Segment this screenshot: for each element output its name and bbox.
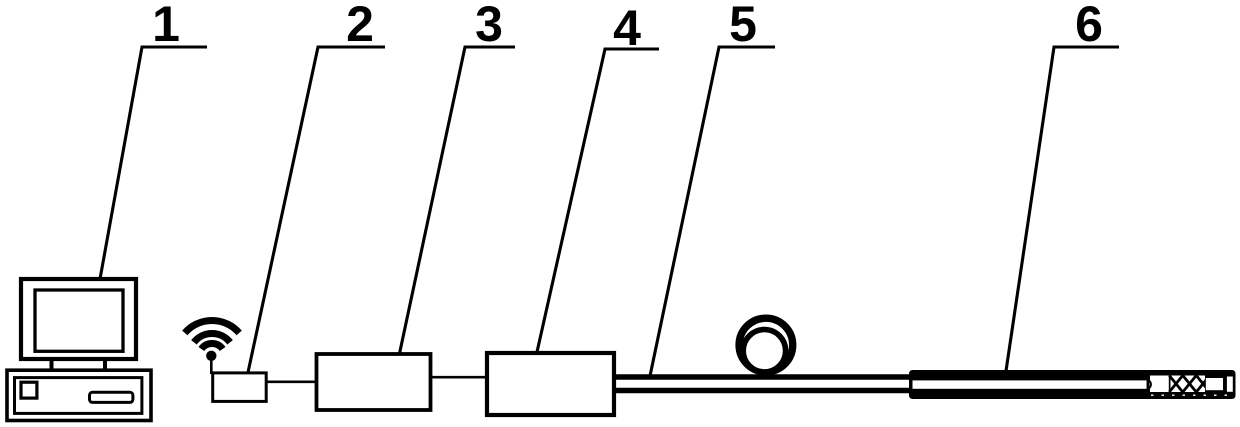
cable 5 bottom line (614, 388, 911, 393)
wifi arc small (201, 344, 222, 349)
computer 1: case inner panel (15, 378, 142, 414)
probe 6 inner channel (913, 380, 1147, 388)
leader line 3 (393, 47, 515, 384)
svg-text:1: 1 (152, 0, 180, 52)
probe 6 window B (1206, 378, 1223, 390)
leader line 4 (537, 49, 659, 352)
wifi arc middle (194, 333, 230, 342)
svg-text:6: 6 (1075, 0, 1103, 52)
computer 1: power button square (21, 382, 37, 398)
box 4 (487, 353, 614, 415)
probe 6 end slot (1227, 377, 1233, 392)
probe 6 hatched section background (1171, 376, 1206, 393)
wire box 3 to box 4 (430, 376, 486, 379)
probe 6 window A (1150, 376, 1169, 393)
leader line 2 (247, 47, 385, 377)
svg-text:2: 2 (346, 0, 374, 52)
computer 1: monitor screen (35, 290, 123, 351)
computer 1: case outer (7, 370, 151, 420)
fiber coil outer loop (739, 318, 793, 372)
wifi arc large (185, 320, 239, 332)
computer 1: monitor stand right leg (103, 359, 107, 370)
wireless adapter box 2 (213, 373, 267, 402)
box 3 (317, 354, 431, 410)
wifi dot (206, 351, 216, 361)
svg-text:5: 5 (729, 0, 757, 52)
probe 6 lens semicircle (1148, 380, 1151, 388)
fiber coil inner loop (743, 330, 785, 372)
computer 1: monitor stand left leg (50, 359, 54, 370)
leader line 5 (650, 47, 775, 376)
wire adapter to box 3 (266, 380, 316, 383)
probe 6 bottom seam dashes (1151, 394, 1231, 396)
probe 6 hatch lines (1169, 376, 1209, 393)
wifi antenna stem (210, 357, 213, 374)
computer 1: disk drive slot (90, 392, 133, 402)
cable 5 top line (614, 374, 911, 379)
leader line 1 (100, 47, 207, 279)
probe 6 body (909, 370, 1236, 399)
computer 1: monitor outer frame (21, 279, 136, 359)
leader line 6 (1006, 47, 1119, 371)
svg-text:3: 3 (475, 0, 503, 52)
